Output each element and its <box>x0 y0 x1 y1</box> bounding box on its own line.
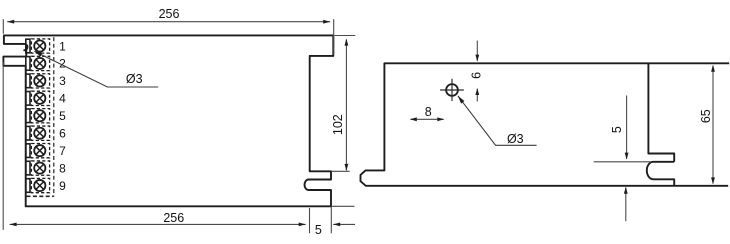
terminal strip long dashed line <box>53 37 55 196</box>
svg-text:8: 8 <box>59 161 66 175</box>
dimension 6 hole to top edge <box>476 41 478 61</box>
terminal screw 5 <box>26 109 50 123</box>
svg-text:4: 4 <box>59 92 66 106</box>
enclosure front view outline <box>3 35 333 206</box>
terminal screw 9 <box>26 178 50 192</box>
dimension 65 side height <box>712 66 714 184</box>
dimension 5 slot to bottom edge <box>626 96 628 159</box>
svg-text:8: 8 <box>425 105 432 119</box>
hole crosshair <box>440 89 464 91</box>
svg-text:65: 65 <box>699 109 713 123</box>
svg-text:5: 5 <box>59 109 66 123</box>
svg-text:5: 5 <box>610 126 624 133</box>
enclosure side view outline <box>361 63 730 186</box>
svg-text:6: 6 <box>59 127 66 141</box>
svg-text:9: 9 <box>59 179 66 193</box>
leader line front hole Ø3 <box>34 51 158 87</box>
mounting hole side view <box>446 84 458 96</box>
svg-text:Ø3: Ø3 <box>126 72 143 86</box>
terminal strip bottom dashed line <box>27 195 54 197</box>
extension line slot top <box>594 161 652 163</box>
svg-text:3: 3 <box>59 74 66 88</box>
svg-text:5: 5 <box>315 223 322 237</box>
terminal screw 2 <box>26 56 50 70</box>
terminal screw 3 <box>26 74 50 88</box>
svg-text:256: 256 <box>163 211 184 225</box>
terminal screw 6 <box>26 126 50 140</box>
dimension 5 bottom right of front view <box>331 205 354 207</box>
svg-text:256: 256 <box>159 7 180 21</box>
terminal screw 8 <box>26 161 50 175</box>
terminal screw 7 <box>26 143 50 157</box>
svg-text:1: 1 <box>59 39 66 53</box>
dimension 256 top <box>3 19 333 54</box>
dimension 102 right of front view <box>332 36 356 172</box>
svg-text:6: 6 <box>470 72 484 79</box>
svg-text:7: 7 <box>59 144 66 158</box>
leader line side hole Ø3 <box>458 96 537 145</box>
dimension 256 bottom <box>3 62 331 233</box>
terminal screw 4 <box>26 91 50 105</box>
svg-text:Ø3: Ø3 <box>507 132 524 146</box>
terminal screw 1 <box>26 39 50 53</box>
svg-text:102: 102 <box>331 114 345 135</box>
side view inner wall and snap slot <box>647 63 674 186</box>
dimension 8 hole offset <box>411 118 444 120</box>
